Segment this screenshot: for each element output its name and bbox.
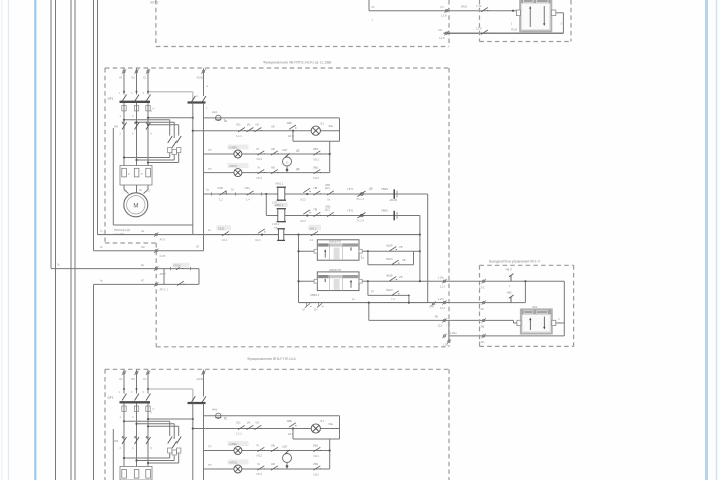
block A right pin wire: [359, 250, 368, 252]
feeder wire2 terminal: [154, 249, 158, 253]
block B fork upper wire1 out: [368, 280, 449, 282]
svg-text:ПП1: ПП1: [348, 187, 354, 191]
device P1b meter: [283, 450, 292, 469]
row2b contact 2: [271, 447, 278, 451]
svg-text:С1: С1: [143, 377, 147, 381]
circuit breaker QF1 tie bar: [120, 101, 151, 103]
control tap bottom: [148, 418, 193, 420]
svg-text:+СВЕЧ: +СВЕЧ: [229, 146, 238, 150]
svg-text:1б: 1б: [231, 187, 234, 191]
svg-text:Х1.1 4: Х1.1 4: [357, 197, 365, 201]
row6 rail return joint: [192, 234, 194, 236]
control rail hot b: [203, 404, 205, 480]
svg-text:УВФ1: УВФ1: [381, 187, 389, 191]
lamp HL3b: [234, 465, 242, 473]
row4 tick a: [211, 192, 213, 196]
lamp HL2b: [234, 447, 242, 455]
terminal wire3 right: [442, 318, 446, 322]
svg-text:1Н: 1Н: [314, 307, 317, 311]
contactor KM2 bypass contacts: [168, 136, 182, 155]
svg-text:QF1: QF1: [108, 97, 114, 101]
phase wire C lower: [147, 103, 149, 166]
svg-text:-2В-4В: -2В-4В: [389, 198, 397, 202]
feeder wire3: [51, 268, 164, 270]
svg-text:1Л: 1Л: [302, 307, 305, 311]
output wire1: [449, 280, 565, 282]
terminal rowA right: [442, 300, 446, 304]
svg-text:И1.2: И1.2: [257, 454, 263, 458]
bypass return bus: [123, 153, 179, 164]
motor feed wires: [124, 185, 148, 194]
block B right pin wire: [359, 280, 368, 282]
circuit breaker QF1b tie bar: [120, 401, 151, 403]
svg-text:ТЛ: ТЛ: [208, 463, 212, 467]
svg-text:1.1.1: 1.1.1: [236, 432, 242, 436]
phase terminal X1b: [122, 371, 126, 375]
phase wire A: [123, 68, 125, 94]
phase wire A lower: [123, 103, 125, 166]
svg-text:СБ1: СБ1: [245, 186, 251, 190]
row1 junction node: [292, 130, 294, 132]
lamp HL1b: [311, 424, 320, 433]
row3b wire: [204, 468, 330, 470]
svg-text:Юн: Юн: [329, 422, 334, 426]
output wire4 edge terminal: [482, 334, 486, 338]
converter module BA1: [521, 309, 552, 333]
wire top block right riser: [562, 13, 564, 33]
svg-text:ВШР: ВШР: [387, 244, 393, 248]
row1b contact SB: [238, 425, 245, 429]
row2b wire: [204, 450, 330, 452]
contact KV1.2 top: [481, 30, 488, 34]
lamp HL3: [234, 169, 242, 177]
thermal relay KK1b box: [120, 467, 152, 480]
page margin line left outer: [1, 0, 3, 480]
svg-text:НВ: НВ: [271, 147, 275, 151]
svg-text:УВ: УВ: [402, 258, 406, 262]
svg-text:КМ: КМ: [114, 439, 119, 443]
row3 wire: [204, 172, 330, 174]
phase terminal X1: [122, 69, 126, 73]
row1b branch: [292, 429, 294, 440]
breaker pole control: [206, 84, 209, 110]
svg-text:1.0.2: 1.0.2: [222, 238, 228, 242]
svg-text:И2.2: И2.2: [314, 176, 320, 180]
svg-text:И2.2: И2.2: [314, 472, 320, 476]
svg-text:12.5: 12.5: [438, 323, 443, 327]
output wire3 edge terminal: [482, 318, 486, 322]
svg-text:ДВ: ДВ: [369, 187, 373, 191]
row3b contact 1: [258, 466, 265, 470]
svg-text:12.9: 12.9: [439, 36, 445, 40]
svg-text:БУ1-1: БУ1-1: [151, 1, 159, 5]
row3 contact 2: [271, 169, 278, 173]
rows23b rail segment: [329, 439, 331, 469]
feeder wire3 terminal: [154, 266, 158, 270]
rowB drop: [368, 303, 370, 321]
row2 contact 3: [314, 151, 321, 155]
svg-text:К2.4: К2.4: [256, 238, 262, 242]
drawing frame line blue right: [705, 0, 708, 480]
row6 contact KM12: [309, 225, 322, 231]
rows23 rail segment: [329, 141, 331, 172]
output node w1: [524, 280, 526, 282]
row6 node to blockA: [297, 234, 299, 236]
bypass wiring loop B: [135, 121, 174, 138]
svg-text:ИМ1: ИМ1: [461, 4, 467, 8]
contactor KM1b main contacts: [122, 436, 151, 444]
svg-text:Б.1: Б.1: [321, 419, 325, 423]
svg-text:ПВ: ПВ: [314, 208, 318, 212]
node top row1: [512, 10, 514, 12]
svg-text:ИВ1: ИВ1: [313, 443, 319, 447]
push button SB2 contact: [177, 281, 184, 285]
wire4 riser: [448, 320, 450, 341]
motor M1: [124, 193, 148, 217]
svg-text:7б: 7б: [256, 147, 259, 151]
rowA wire2 out: [299, 302, 449, 304]
svg-text:КМ1В ПЛ: КМ1В ПЛ: [329, 240, 341, 244]
svg-text:АВБ: АВБ: [287, 419, 293, 423]
svg-text:Тб: Тб: [274, 226, 278, 230]
svg-text:НВ: НВ: [271, 462, 275, 466]
feeder wire4 terminal: [154, 282, 158, 286]
row4 capacitor bars: [393, 189, 395, 199]
QF1 trip units: [122, 106, 155, 111]
svg-text:СБ11: СБ11: [218, 227, 225, 231]
module BA1 left pin: [517, 320, 521, 325]
contactor KM1 main contacts: [122, 122, 151, 130]
push button loop SB: [164, 269, 199, 285]
output block dashed enclosure: [480, 265, 574, 346]
output wire1 edge terminal: [482, 279, 486, 283]
svg-text:И1.3: И1.3: [257, 176, 263, 180]
svg-text:ИВ2: ИВ2: [313, 462, 319, 466]
lamp HL1: [311, 126, 320, 135]
QF1 control tie bar: [188, 101, 206, 103]
row6 contact SB11: [217, 225, 232, 230]
thermal relay heater B: [134, 168, 139, 177]
terminal top row2: [444, 31, 448, 35]
svg-text:КГ: КГ: [141, 279, 145, 283]
svg-text:И1.2: И1.2: [257, 157, 263, 161]
row2b contact 3: [314, 447, 321, 451]
bottom unit enclosure dashed box: [105, 369, 449, 480]
svg-text:ПП2: ПП2: [348, 209, 354, 213]
wire top unit feed vertical: [368, 0, 370, 11]
row1b parallel loop top: [204, 415, 340, 417]
row4 node to row5: [265, 193, 267, 195]
svg-text:КМ: КМ: [114, 125, 119, 129]
bypass wiring loop Cb: [147, 425, 179, 436]
svg-text:В1: В1: [132, 76, 136, 80]
block A fork lower: [368, 251, 414, 265]
svg-text:НВ: НВ: [271, 166, 275, 170]
svg-text:УВ: УВ: [399, 275, 403, 279]
svg-text:АП.2: АП.2: [160, 288, 166, 292]
row3 contact 3: [314, 169, 321, 173]
row5 contact DU2: [327, 212, 334, 216]
svg-text:И11: И11: [236, 420, 241, 424]
svg-text:+СВЕЧ: +СВЕЧ: [229, 442, 238, 446]
row6 end node: [419, 234, 421, 236]
contact KV1.1 top: [481, 8, 488, 12]
svg-text:СвП: СвП: [282, 445, 287, 449]
control rail upper b: [203, 370, 205, 397]
row5 right corner down: [419, 216, 421, 235]
svg-text:НВ: НВ: [271, 444, 275, 448]
svg-text:Функциональное 4В-УП/П1-14сЛ: Функциональное 4В-УП/П1-14сЛ х.св. 1с.19…: [263, 61, 332, 65]
svg-text:АП.Л: АП.Л: [160, 272, 166, 276]
svg-text:ОВ1: ОВ1: [325, 183, 331, 187]
svg-text:7.4: 7.4: [391, 297, 395, 301]
bell HA1: [215, 115, 221, 120]
bus L1: [50, 0, 52, 268]
row5 contact PV: [314, 212, 321, 216]
row6 wire: [98, 234, 420, 236]
output right riser: [563, 281, 565, 336]
row1 branch: [292, 131, 294, 142]
feeder wire2: [94, 250, 204, 252]
row2 contact 1: [258, 151, 265, 155]
terminal wire4 right: [442, 334, 446, 338]
row5 wire: [266, 215, 420, 217]
bell HA1b: [215, 413, 221, 418]
device P1 meter: [283, 153, 292, 172]
row1b contact 2: [247, 425, 254, 429]
svg-text:УВФ1: УВФ1: [381, 208, 389, 212]
control terminal X4: [201, 69, 205, 73]
drawing frame line blue left: [34, 0, 36, 480]
svg-text:И2.1: И2.1: [314, 454, 320, 458]
svg-text:К2.2: К2.2: [301, 197, 307, 201]
wire top unit row1: [369, 10, 517, 12]
row3b contact 2: [271, 466, 278, 470]
lamp HL2: [234, 150, 242, 158]
feeder wire4: [94, 283, 165, 285]
phase terminal X2b: [134, 371, 138, 375]
svg-text:1.2: 1.2: [219, 198, 223, 202]
svg-text:И1.3: И1.3: [257, 472, 263, 476]
row5 contact PP2: [358, 213, 366, 219]
svg-text:ЛВ: ЛВ: [435, 315, 439, 319]
terminal top row1: [444, 9, 448, 13]
row2 contact 2: [271, 151, 278, 155]
top output block dashed enclosure: [480, 0, 572, 42]
svg-text:QF1: QF1: [108, 396, 114, 400]
row4 junction contact: [306, 193, 308, 195]
svg-text:ВШР: ВШР: [387, 274, 393, 278]
rowA hanging terminal 2: [317, 303, 323, 308]
QF1b control tie bar: [188, 402, 206, 404]
svg-text:ТЛ: ТЛ: [208, 445, 212, 449]
row1b contact 3: [255, 425, 262, 429]
svg-text:1.1Гц: 1.1Гц: [438, 297, 445, 301]
row2 wire: [204, 153, 330, 155]
svg-text:ТЛ: ТЛ: [208, 148, 212, 152]
phase wire B: [136, 68, 138, 94]
row4 tick b: [235, 192, 237, 196]
phase terminal X2: [134, 69, 138, 73]
page margin line right: [716, 0, 718, 480]
row6 terminal on box edge: [154, 232, 158, 236]
row1 contact 2: [247, 128, 254, 132]
bus L3: [70, 0, 72, 480]
svg-text:ВШЛ: ВШЛ: [387, 257, 393, 261]
bus control A upper: [93, 0, 95, 251]
output wire2 contact: [509, 295, 514, 303]
row4 wire: [204, 193, 428, 195]
svg-text:АБ: АБ: [271, 125, 275, 129]
QF1 control poles: [191, 96, 206, 103]
vertical collector: [419, 235, 421, 282]
svg-text:Лм: Лм: [141, 245, 145, 249]
wire top unit row2: [444, 32, 564, 34]
svg-text:ДБ: ДБ: [296, 167, 300, 171]
svg-text:А1: А1: [119, 377, 123, 381]
control rail return b: [192, 404, 194, 480]
module U1 top left pin: [516, 10, 520, 16]
row1 parallel loop top: [204, 117, 340, 119]
bypass wiring loop Ab: [123, 420, 170, 436]
row5 capacitor bars: [393, 211, 395, 221]
row3b contact 3: [314, 466, 321, 470]
svg-text:1.2: 1.2: [310, 238, 314, 242]
row4 contact SB1: [247, 191, 254, 195]
row1b right edge: [339, 416, 341, 439]
svg-text:НА1: НА1: [212, 110, 218, 114]
middle unit enclosure dashed box: [105, 68, 449, 347]
power assembly box b: [112, 429, 114, 480]
svg-text:1.1Бн: 1.1Бн: [450, 331, 457, 335]
wire3 jog to module: [513, 320, 515, 323]
svg-text:Х1.2 4: Х1.2 4: [357, 219, 365, 223]
row6 junction contact: [261, 234, 263, 236]
module BA1 right pin wire: [556, 322, 565, 324]
svg-text:2.Об: 2.Об: [160, 254, 166, 258]
coil KM1: [278, 187, 285, 200]
output wire1 start contact: [509, 274, 514, 282]
power assembly box: [113, 128, 193, 225]
row6 coil element: [278, 229, 283, 241]
svg-text:2б: 2б: [196, 245, 199, 249]
block B fork lower: [368, 281, 409, 302]
rowB wire3 out: [369, 319, 514, 321]
control rail return: [192, 103, 194, 235]
bypass wiring loop A: [123, 119, 170, 136]
svg-text:Г.Л2: Г.Л2: [479, 307, 484, 311]
bus N: [74, 0, 76, 480]
thermal relay heater Ab: [122, 470, 127, 479]
bypass wiring loop Bb: [135, 423, 174, 439]
bypass wiring loop C: [147, 124, 179, 136]
svg-text:С1: С1: [143, 76, 147, 80]
svg-text:ИВ1: ИВ1: [313, 147, 319, 151]
control rail hot: [203, 103, 205, 235]
row3 contact 1: [258, 169, 265, 173]
svg-text:+ЛПО1: +ЛПО1: [229, 461, 238, 465]
svg-text:1.1Б: 1.1Б: [443, 342, 448, 346]
svg-text:СвП: СвП: [282, 148, 287, 152]
control terminal X4b: [201, 371, 205, 375]
svg-text:КМ1.2: КМ1.2: [309, 226, 317, 230]
svg-text:ПВ: ПВ: [314, 186, 318, 190]
svg-text:Б.1: Б.1: [321, 121, 325, 125]
svg-text:ПУСК: ПУСК: [174, 264, 182, 268]
svg-text:КМ2В ПЛ: КМ2В ПЛ: [329, 268, 341, 272]
row4 contact PP1: [358, 191, 366, 197]
QF1b trip units: [122, 406, 155, 411]
row4 tick c: [261, 192, 263, 196]
svg-text:П2.8: П2.8: [511, 27, 517, 31]
row1b junction node: [292, 427, 294, 429]
output wire2: [449, 302, 526, 304]
svg-text:12.8: 12.8: [441, 14, 447, 18]
svg-text:М1: М1: [256, 123, 260, 127]
phase wire Bb: [136, 370, 138, 394]
svg-text:Выходной блок управления ПЧ-1-: Выходной блок управления ПЧ-1-Ч: [489, 260, 540, 264]
control rail hot lower stub: [203, 235, 205, 251]
block B left pin wire: [299, 280, 318, 282]
svg-text:1.1.1: 1.1.1: [236, 134, 242, 138]
breaker QF1b mechanical link: [148, 388, 193, 390]
control tap from phase C: [148, 117, 193, 119]
relay block A: [317, 240, 359, 260]
svg-text:ЧВ П: ЧВ П: [506, 268, 512, 272]
row2b contact 1: [258, 447, 265, 451]
thermal relay heater Bb: [134, 470, 139, 479]
phase terminal X3b: [146, 371, 150, 375]
QF1b control poles: [191, 396, 206, 403]
svg-text:КМ2.1: КМ2.1: [275, 203, 283, 207]
row1 contact 3: [255, 128, 262, 132]
svg-text:7с: 7с: [224, 119, 228, 123]
coil KM2: [278, 209, 285, 222]
row4 NC contact KM2: [220, 191, 227, 195]
breaker QF1 mechanical link: [148, 91, 193, 93]
svg-text:КМ2: КМ2: [218, 186, 224, 190]
svg-text:АВБ: АВБ: [287, 121, 293, 125]
block A pins vertical: [298, 235, 300, 303]
wire4 end terminals: [447, 339, 451, 343]
row1 right edge: [339, 118, 341, 141]
top unit enclosure dashed box: [156, 0, 449, 47]
svg-text:А1: А1: [119, 76, 123, 80]
output wire2 edge terminal: [482, 300, 486, 304]
svg-text:[А]: [А]: [247, 123, 250, 127]
bus L2: [55, 0, 57, 480]
svg-text:Кн: Кн: [141, 263, 145, 267]
svg-text:НА1: НА1: [212, 408, 218, 412]
row1 main wire: [193, 130, 340, 132]
svg-text:4.8: 4.8: [438, 28, 442, 32]
circuit breaker QF1b poles: [122, 394, 151, 401]
svg-text:ЧВ2: ЧВ2: [507, 290, 513, 294]
svg-text:АВВ1 2: АВВ1 2: [310, 293, 319, 297]
block A left pin wire: [299, 250, 318, 252]
circuit breaker QF1 poles: [122, 95, 151, 102]
rowA hanging terminal 1: [305, 303, 311, 308]
module U1 top right pin: [551, 10, 555, 16]
svg-text:12.3: 12.3: [440, 285, 445, 289]
svg-text:ВШЛ: ВШЛ: [387, 288, 393, 292]
svg-text:М: М: [133, 203, 138, 209]
relay block B: [317, 272, 359, 291]
row1 contact SB: [238, 128, 245, 132]
phase wire C: [147, 68, 149, 94]
row4 contact PV: [314, 191, 321, 195]
svg-text:7с: 7с: [224, 417, 228, 421]
